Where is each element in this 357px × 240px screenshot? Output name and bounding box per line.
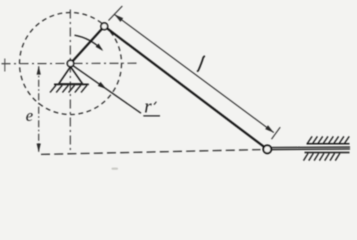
crank pin joint A [101,23,108,30]
guide top line [307,143,350,145]
crank link OA [71,26,105,63]
ground base line at pivot [54,83,89,85]
guide bottom line [305,152,350,154]
guide top hatching [308,136,350,143]
slider axis dashed line [41,150,261,155]
dimension l bottom arrowhead [265,125,274,132]
dimension e line with arrows [37,66,41,153]
dimension l top arrowhead [114,14,123,22]
svg-text:r: r [144,97,152,118]
dimension l extension tick at A [109,6,123,21]
piston rod double line [272,146,350,148]
ground hatching at pivot [50,85,87,92]
connecting rod AB [104,26,267,149]
left end tick of centerline [4,59,6,72]
radius r leader line [73,65,142,113]
faint print-through mark [112,168,119,170]
ground triangle at pivot [59,67,83,84]
dimension l extension tick at B [272,127,281,139]
svg-text:e: e [26,106,33,125]
horizontal centerline [2,62,139,65]
vertical centerline [69,10,71,151]
label l [198,56,205,71]
radius r arrowhead [98,82,107,89]
guide bottom hatching [304,153,340,160]
crank circle path (dashed) [20,13,122,115]
pivot joint O [67,60,73,66]
rotation direction arrow [75,35,102,49]
dimension l line [115,15,274,133]
slider pin joint B [263,145,271,153]
